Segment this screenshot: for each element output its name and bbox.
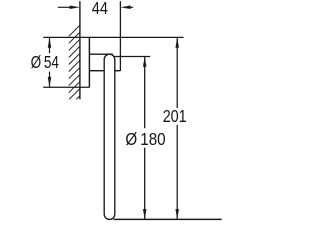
arrowhead 44 right (points left at housing front) [120,6,130,10]
housing slot line tangent over ring top [89,53,112,55]
dimension 201 line [176,37,178,219]
label mask 201 [162,108,189,125]
arrowhead 180 bottom (points down) [143,209,147,219]
wall hatching [69,25,80,99]
dimension 180 line [144,57,146,220]
rosette front edge [88,37,90,87]
arrowhead 201 bottom (points down) [175,209,179,219]
bottom extension line for dims 180 and 201 [113,218,221,220]
housing bottom edge right segment [115,70,121,72]
dimension 54 line [49,37,51,87]
svg-text:Ø 54: Ø 54 [31,52,60,72]
label mask 180 [124,128,168,147]
arrowhead 201 top (points up) [175,37,179,47]
label mask 54 [29,53,61,71]
housing bottom edge left segment [89,70,104,72]
svg-text:44: 44 [92,0,109,18]
towel ring (capsule, side view) [104,54,115,219]
housing front edge + extension line for dim 44 [119,1,121,71]
arrowhead 54 top (points up) [48,37,52,47]
arrowhead 180 top (points up) [143,57,147,67]
arrowhead 44 left (points right at wall) [70,6,80,10]
svg-text:Ø 180: Ø 180 [125,129,165,149]
rosette bottom edge + extension line for dim 54 [43,86,89,88]
top line: rosette top edge + extension line for dims 54 and 201 [43,36,183,38]
dimension 44 line left tail [58,6,70,8]
arrowhead 54 bottom (points down) [48,77,52,87]
diameter-180 top extension line [113,56,150,58]
svg-text:201: 201 [163,106,187,126]
wall surface line [79,1,81,99]
dimension 44 line right tail [130,6,133,8]
